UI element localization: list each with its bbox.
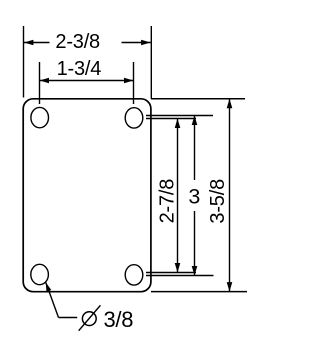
svg-text:3/8: 3/8 <box>104 307 134 332</box>
svg-text:2-7/8: 2-7/8 <box>156 179 178 224</box>
svg-text:1-3/4: 1-3/4 <box>57 58 102 80</box>
extension line top for 3-5/8 (plate top edge extended) <box>151 98 245 100</box>
extension line left for 2-3/8 <box>23 26 25 98</box>
hole bottom-right <box>125 265 143 285</box>
diameter symbol slash <box>79 305 101 330</box>
arrowhead 3 top <box>192 116 198 126</box>
extension line top for 3 (upper) <box>146 115 213 117</box>
extension line right for 1-3/4 <box>133 62 135 104</box>
arrowhead 3 bottom <box>192 266 198 276</box>
extension line top for 2-7/8 (lower, at hole center) <box>146 118 196 120</box>
dimension line 3 lower segment <box>194 211 196 276</box>
svg-text:2-3/8: 2-3/8 <box>55 31 100 53</box>
extension line bottom for 3-5/8 (plate bottom edge extended) <box>151 291 247 293</box>
dimension line 2-7/8 <box>177 119 179 273</box>
arrowhead 3-5/8 bottom <box>227 282 233 292</box>
diameter symbol circle <box>82 312 96 326</box>
leader arrowhead <box>46 282 52 292</box>
leader line diagonal to bottom-left hole <box>46 282 59 317</box>
extension line right for 2-3/8 <box>150 26 152 99</box>
mounting plate outline <box>23 99 151 292</box>
arrowhead 1-3/4 right <box>124 78 134 84</box>
arrowhead 1-3/4 left <box>40 78 50 84</box>
arrowhead 2-3/8 left <box>24 40 34 46</box>
svg-text:3-5/8: 3-5/8 <box>207 179 229 224</box>
extension line left for 1-3/4 <box>39 62 41 104</box>
leader line horizontal segment <box>59 317 78 319</box>
arrowhead 2-7/8 bottom <box>175 263 181 273</box>
extension line bottom for 3 (lower) <box>146 275 214 277</box>
extension line bottom for 2-7/8 (upper) <box>146 272 196 274</box>
hole top-left <box>31 107 49 127</box>
dimension line 1-3/4 <box>40 80 134 82</box>
svg-text:3: 3 <box>188 185 200 209</box>
dimension line 2-3/8 left segment <box>24 42 50 44</box>
dimension line 3-5/8 <box>229 99 231 292</box>
arrowhead 3-5/8 top <box>227 99 233 109</box>
dimension line 2-3/8 right segment <box>122 42 151 44</box>
arrowhead 2-3/8 right <box>141 40 151 46</box>
arrowhead 2-7/8 top <box>175 119 181 129</box>
hole top-right <box>125 108 143 128</box>
hole bottom-left <box>31 264 49 284</box>
dimension line 3 upper segment <box>194 116 196 181</box>
